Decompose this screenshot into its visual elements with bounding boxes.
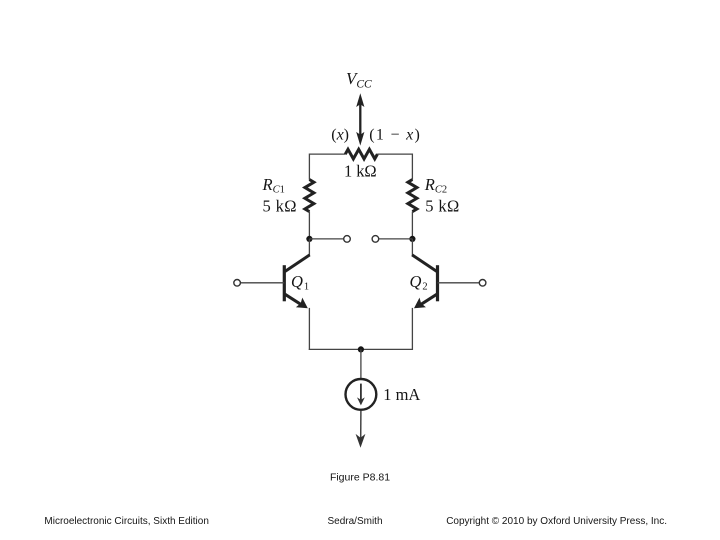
node collector Q1 (junction dot) xyxy=(306,236,312,242)
wire RC1 to collector node of Q1 xyxy=(308,212,310,239)
label (x) xyxy=(331,126,349,143)
wire base of Q1 xyxy=(241,282,285,284)
terminal vO2 (open circle) xyxy=(372,236,379,243)
wire collector node to output terminal vO2 xyxy=(379,238,413,240)
label 5 kOhm (RC1 value) xyxy=(263,196,297,215)
transistor Q2 xyxy=(412,255,437,308)
label Q2 xyxy=(410,272,428,292)
transistor Q1 xyxy=(284,255,309,308)
label 1 kOhm xyxy=(344,161,377,180)
label 5 kOhm (RC2 value) xyxy=(425,196,459,215)
wire current source to negative supply xyxy=(360,411,362,439)
wire RC2 to collector node of Q2 xyxy=(411,212,413,239)
svg-text:Figure P8.81: Figure P8.81 xyxy=(330,472,390,484)
svg-text:Copyright © 2010 by Oxford Uni: Copyright © 2010 by Oxford University Pr… xyxy=(446,516,667,527)
wire collector node down to Q2 collector xyxy=(411,239,413,256)
svg-text:5 kΩ: 5 kΩ xyxy=(425,196,459,215)
footer book title xyxy=(44,516,209,527)
node collector Q2 (junction dot) xyxy=(409,236,415,242)
label RC1 xyxy=(262,175,285,195)
wire emitter Q1 down to tail rail xyxy=(308,308,310,350)
caption Figure P8.81 xyxy=(330,472,390,484)
wire collector node down to Q1 collector xyxy=(308,239,310,256)
arrowhead to negative supply xyxy=(356,434,366,448)
wire VCC rail down to RC2 xyxy=(411,154,413,180)
svg-text:1 kΩ: 1 kΩ xyxy=(344,161,377,180)
svg-text:Q1: Q1 xyxy=(291,272,309,292)
footer copyright xyxy=(446,516,667,527)
label RC2 xyxy=(424,175,447,195)
label 1 mA xyxy=(383,385,420,404)
current source 1 mA xyxy=(346,379,377,410)
svg-text:1 mA: 1 mA xyxy=(383,385,420,404)
footer authors xyxy=(327,516,382,527)
label Q1 xyxy=(291,272,309,292)
wire collector node to output terminal vO1 xyxy=(309,238,343,240)
wire tail node to current source xyxy=(360,349,362,378)
net VCC label xyxy=(346,69,372,91)
wire VCC rail down to RC1 xyxy=(308,154,310,180)
svg-text:Microelectronic Circuits, Sixt: Microelectronic Circuits, Sixth Edition xyxy=(44,516,209,527)
svg-text:Q2: Q2 xyxy=(410,272,428,292)
wire VCC supply double-headed arrow xyxy=(356,93,364,145)
wire base of Q2 xyxy=(438,282,480,284)
svg-text:5 kΩ: 5 kΩ xyxy=(263,196,297,215)
wire emitter Q2 down to tail rail xyxy=(411,308,413,350)
svg-text:(1 − x): (1 − x) xyxy=(369,126,420,143)
potentiometer 1 kOhm zigzag xyxy=(345,149,377,159)
resistor RC1 zigzag xyxy=(305,180,314,212)
terminal vO1 (open circle) xyxy=(344,236,351,243)
terminal base Q1 (open circle) xyxy=(234,280,241,287)
svg-text:RC2: RC2 xyxy=(424,175,447,195)
label (1 - x) xyxy=(369,126,420,143)
svg-text:RC1: RC1 xyxy=(262,175,285,195)
svg-text:Sedra/Smith: Sedra/Smith xyxy=(327,516,382,527)
svg-text:VCC: VCC xyxy=(346,69,372,91)
wire emitter tail rail xyxy=(309,348,413,350)
svg-text:(x): (x) xyxy=(331,126,349,143)
node tail junction (dot) xyxy=(358,346,364,352)
wire top rail right xyxy=(377,153,412,155)
wire top rail left xyxy=(309,153,345,155)
resistor RC2 zigzag xyxy=(408,180,417,212)
terminal base Q2 (open circle) xyxy=(479,280,486,287)
